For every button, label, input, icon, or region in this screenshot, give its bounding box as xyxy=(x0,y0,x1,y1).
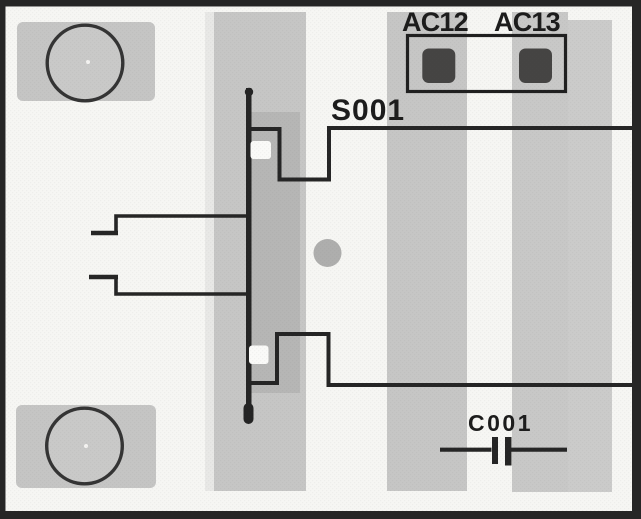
wire left upper lead xyxy=(116,216,249,235)
copper trace band far right xyxy=(568,20,612,492)
wire left upper lead stub xyxy=(91,231,118,235)
switch S001 body top cap xyxy=(245,88,253,96)
switch S001 body bar xyxy=(246,88,252,418)
capacitor C001 right plate xyxy=(505,437,512,466)
capacitor C001 left lead xyxy=(440,448,492,452)
via pad node xyxy=(314,239,342,267)
mounting hole top-left center speck xyxy=(86,60,90,64)
board edge frame bottom xyxy=(0,511,641,519)
connector block outline xyxy=(408,36,566,92)
pad AC12 xyxy=(422,49,455,84)
copper trace band center xyxy=(214,12,306,491)
board edge frame right xyxy=(632,0,641,519)
board edge frame top xyxy=(0,0,641,7)
copper trace band right xyxy=(512,12,568,492)
wire left lower lead stub xyxy=(89,275,118,279)
mounting hole bottom-left center speck xyxy=(84,444,88,448)
board edge frame left xyxy=(0,0,6,519)
switch notch lower xyxy=(249,346,269,365)
wire left lower lead xyxy=(116,276,249,295)
pad AC13 xyxy=(519,49,552,84)
mounting hole pad top-left xyxy=(17,22,155,101)
mounting hole top-left xyxy=(47,25,123,101)
switch notch upper xyxy=(251,141,272,159)
mounting hole bottom-left xyxy=(47,408,123,484)
copper trace band center darker overlap xyxy=(249,112,300,393)
switch S001 body bottom cap xyxy=(244,403,254,424)
wire S001 top net xyxy=(248,128,634,180)
copper trace band mid-right xyxy=(387,12,467,491)
capacitor C001 right lead xyxy=(512,448,568,452)
copper trace band faint left stripe xyxy=(205,12,214,491)
capacitor C001 left plate xyxy=(492,437,498,464)
wire bottom net xyxy=(248,334,634,385)
mounting hole pad bottom-left xyxy=(16,405,156,488)
